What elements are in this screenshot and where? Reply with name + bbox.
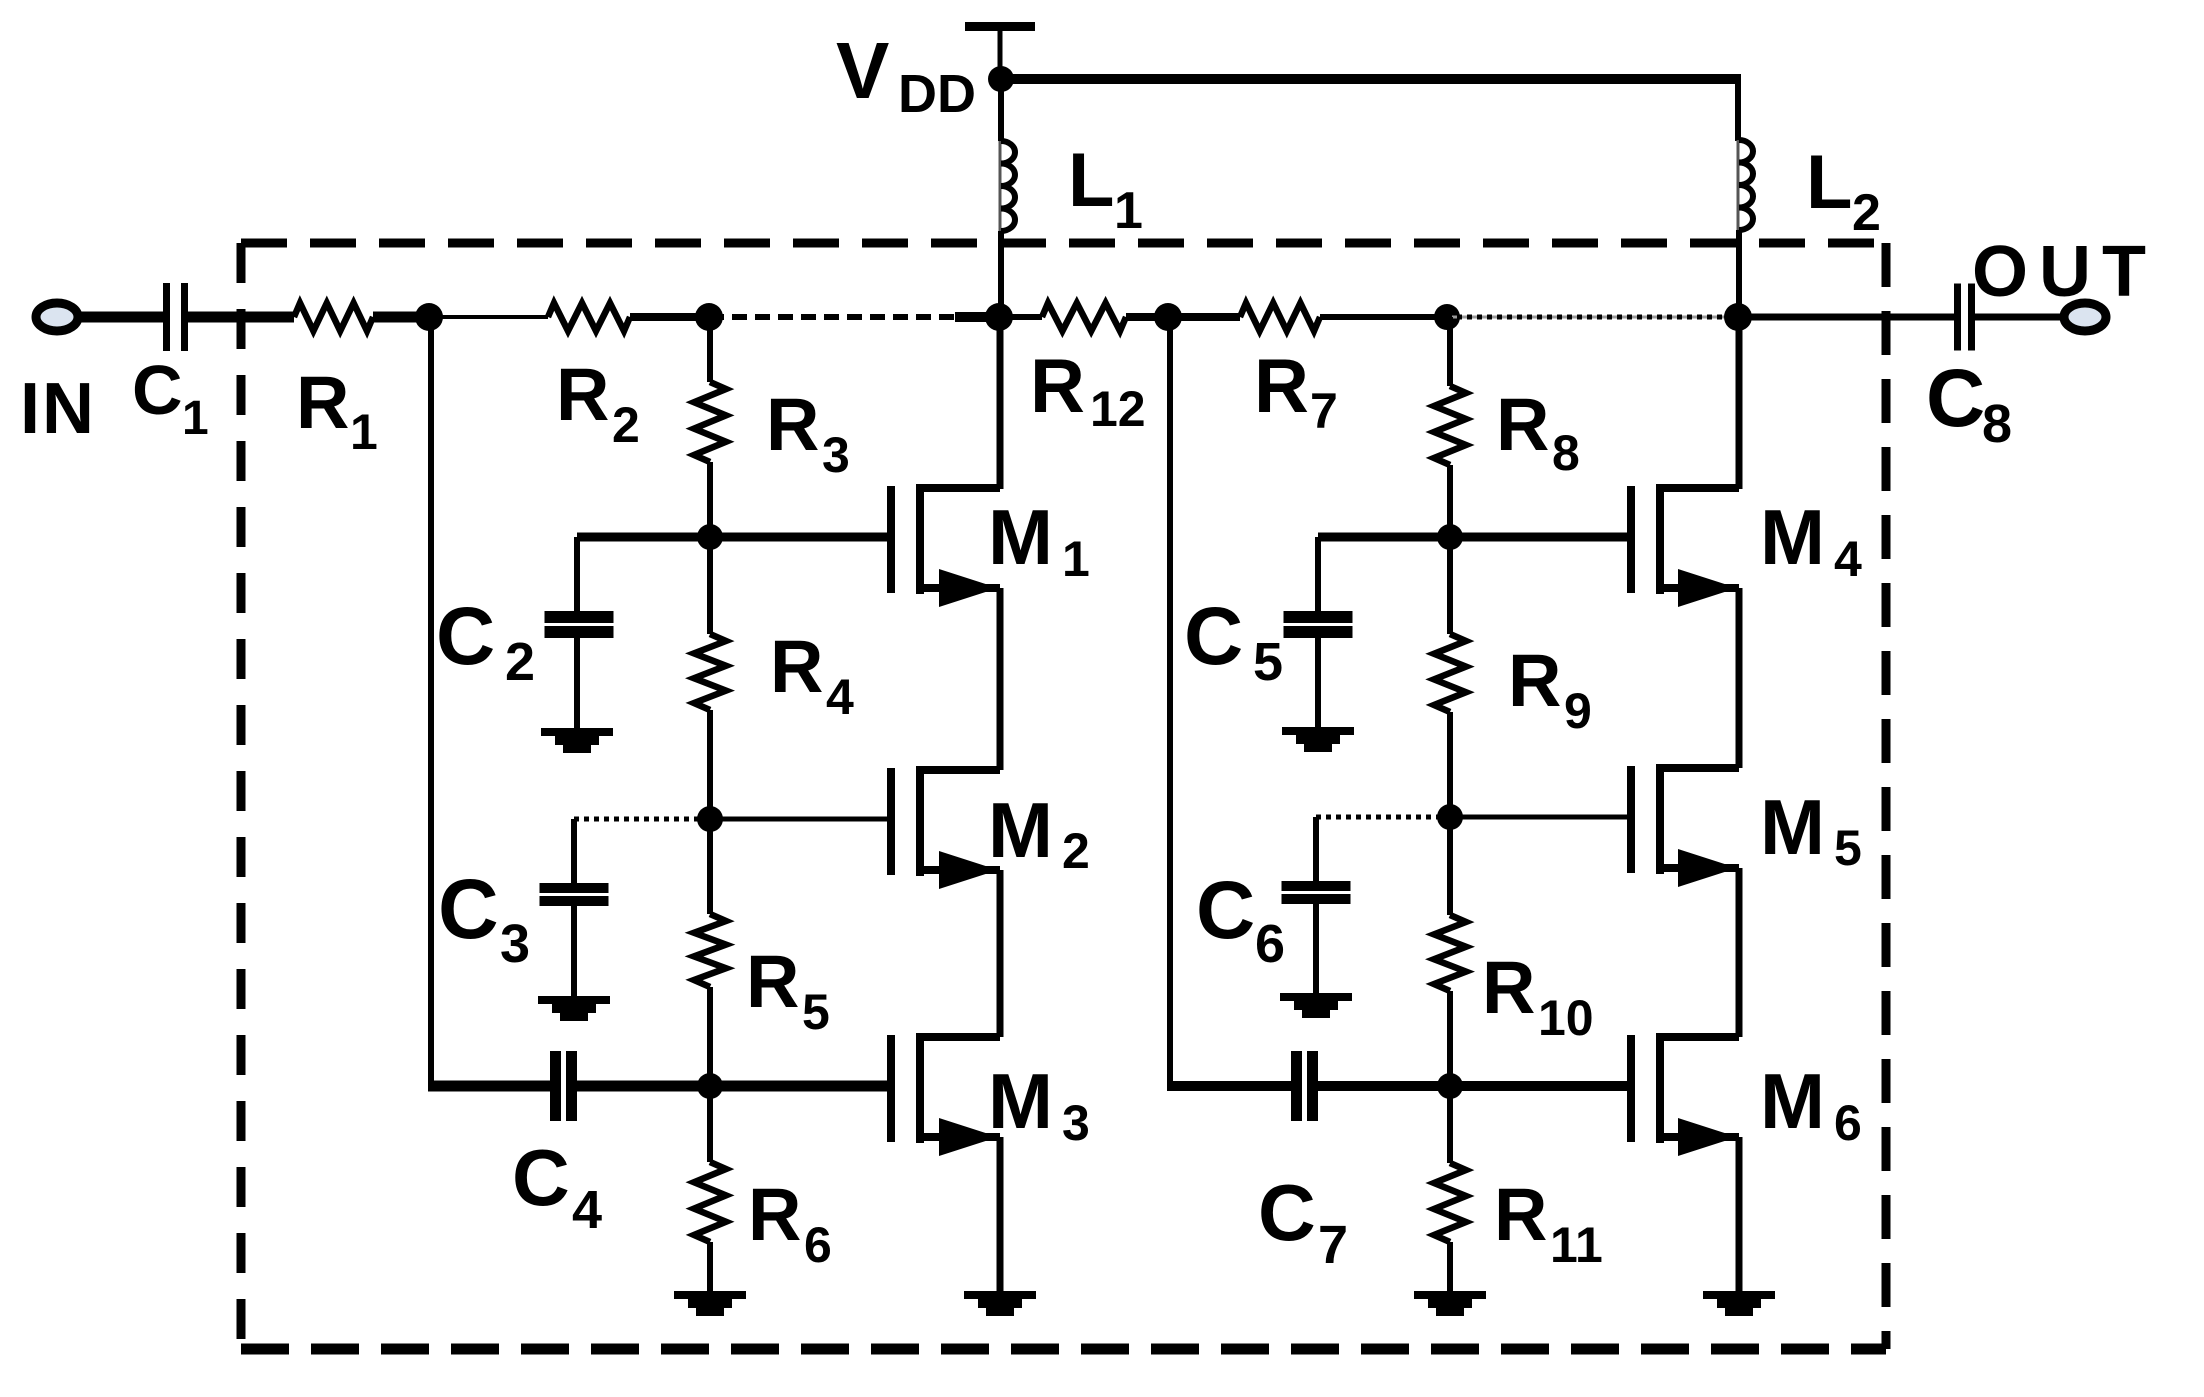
node VDD junction (988, 66, 1014, 92)
node M1 gate junction (697, 524, 723, 550)
resistor R8 (1434, 386, 1466, 465)
wire M2 gate node to R5 (707, 819, 713, 914)
node A junction (415, 303, 443, 331)
svg-text:C: C (436, 591, 495, 682)
capacitor C1 (163, 283, 170, 351)
wire IN to C1 (78, 312, 163, 323)
svg-text:C: C (1926, 353, 1985, 444)
resistor R1 (294, 303, 373, 331)
wire L1 bottom lead (998, 231, 1004, 317)
wire C7 to M6 gate node (1318, 1081, 1450, 1091)
capacitor C3 (540, 883, 609, 893)
resistor R6 (694, 1162, 726, 1242)
wire C2 bottom lead (574, 638, 580, 728)
wire C4 row corner to C4 (428, 1081, 550, 1092)
svg-text:R: R (1496, 383, 1549, 466)
wire R4 to M2 gate node (707, 710, 713, 819)
wire M3 gate node to R6 (707, 1086, 713, 1162)
svg-text:5: 5 (802, 984, 830, 1040)
svg-text:8: 8 (1982, 394, 2012, 454)
transistor M5 (1627, 766, 1635, 873)
wire R10 to M6 gate node (1447, 991, 1453, 1086)
resistor R3 (694, 382, 726, 462)
node B junction (695, 303, 723, 331)
svg-text:M: M (988, 786, 1053, 874)
capacitor C6 (1282, 881, 1351, 891)
wire C5 top lead (1315, 537, 1321, 611)
ground under R11 (1414, 1291, 1486, 1299)
node F junction (L2 / M4 drain) (1724, 303, 1752, 331)
wire node B to node C (dashed) (709, 314, 960, 320)
wire C3 bottom lead (571, 906, 577, 996)
wire R3 to M1 gate node (707, 462, 713, 537)
svg-text:C: C (512, 1133, 570, 1222)
svg-text:9: 9 (1564, 683, 1592, 739)
svg-text:R: R (1508, 639, 1561, 722)
inductor L2 (1737, 140, 1740, 230)
node E junction (1434, 304, 1460, 330)
svg-text:L: L (1806, 140, 1852, 225)
svg-text:1: 1 (350, 404, 378, 460)
svg-text:C: C (438, 862, 499, 956)
node M2 gate junction (697, 806, 723, 832)
capacitor C5 (1284, 611, 1353, 623)
wire C5/M4-gate row (1318, 533, 1631, 542)
transistor M2 (887, 768, 895, 875)
node M4 gate junction (1437, 524, 1463, 550)
svg-text:2: 2 (612, 397, 640, 453)
ground under C6 (1280, 993, 1352, 1001)
resistor R5 (694, 914, 726, 987)
svg-text:4: 4 (826, 669, 854, 725)
resistor R11 (1434, 1163, 1466, 1242)
wire C4 to M3 gate node (577, 1081, 710, 1092)
svg-text:R: R (748, 1173, 801, 1256)
node M6 gate junction (1437, 1073, 1463, 1099)
ground under C2 (541, 728, 613, 736)
wire M6 gate node to gate (1450, 1081, 1631, 1091)
svg-text:12: 12 (1090, 381, 1146, 437)
svg-text:3: 3 (1062, 1095, 1090, 1151)
wire R9 to M5 gate node (1447, 712, 1453, 817)
resistor R10 (1434, 915, 1466, 991)
wire M5 gate node to gate (1450, 815, 1631, 820)
wire node E to R8 (1447, 317, 1453, 386)
wire R8 to M4 gate node (1447, 465, 1453, 537)
svg-text:R: R (1254, 344, 1309, 429)
svg-text:M: M (1760, 493, 1825, 581)
svg-text:R: R (1482, 946, 1535, 1029)
svg-text:R: R (1494, 1173, 1547, 1256)
inductor L1 (999, 141, 1002, 231)
svg-text:1: 1 (1062, 531, 1090, 587)
svg-text:4: 4 (572, 1180, 602, 1240)
wire R5 to M3 gate node (707, 987, 713, 1086)
wire R11 to ground (1447, 1242, 1453, 1291)
wire C3 to M2 gate node (dotted) (574, 817, 700, 822)
svg-text:M: M (988, 493, 1053, 581)
svg-text:OUT: OUT (1972, 232, 2157, 312)
svg-text:R: R (556, 353, 609, 436)
dashed box left border (237, 243, 246, 1349)
terminal OUT (2064, 303, 2106, 331)
wire C1 to R1 (188, 312, 294, 323)
wire C2/M1-gate row (577, 533, 891, 542)
transistor M1 (887, 486, 895, 593)
svg-text:6: 6 (804, 1217, 832, 1273)
wire node A down to C4 row (428, 317, 434, 1086)
wire M6 gate node to R11 (1447, 1086, 1453, 1163)
wire M5 source to M6 drain (1736, 868, 1743, 1037)
power rail VDD symbol (top bar) (965, 22, 1035, 31)
resistor R12 (1042, 303, 1126, 331)
svg-text:M: M (988, 1057, 1053, 1145)
wire C7 row corner to C7 (1167, 1081, 1291, 1091)
wire L1 top lead (998, 84, 1004, 141)
wire into node C (955, 312, 999, 322)
wire C6 to M5 gate node (dotted) (1316, 815, 1440, 820)
svg-text:M: M (1760, 783, 1825, 871)
svg-text:IN: IN (20, 369, 96, 449)
svg-text:6: 6 (1255, 914, 1285, 974)
svg-text:7: 7 (1310, 383, 1338, 439)
wire node D down to C7 row (1167, 317, 1173, 1086)
svg-text:6: 6 (1834, 1095, 1862, 1151)
wire node F to C8 (1738, 314, 1954, 321)
dashed box bottom border (241, 1344, 1886, 1355)
wire M2 gate node to gate (710, 817, 891, 822)
svg-text:C: C (1184, 591, 1243, 682)
wire node D to R7 (1168, 313, 1240, 321)
svg-text:5: 5 (1253, 632, 1283, 692)
node D junction (1154, 303, 1182, 331)
wire node C to R12 (999, 314, 1042, 320)
capacitor C7 (1291, 1051, 1302, 1121)
dashed box top border (241, 239, 1886, 248)
svg-text:DD: DD (898, 64, 976, 124)
capacitor C8 (1954, 284, 1961, 351)
capacitor C2 (545, 611, 614, 623)
terminal IN (36, 303, 78, 331)
wire VDD rail to L2 (1001, 74, 1741, 84)
ground under R6 (674, 1291, 746, 1299)
wire M4 gate node to R9 (1447, 537, 1453, 634)
svg-text:C: C (132, 351, 183, 429)
svg-text:7: 7 (1318, 1215, 1348, 1275)
wire M2 source to M3 drain (997, 870, 1004, 1037)
wire C3 top lead (571, 819, 577, 883)
transistor M6 (1627, 1035, 1635, 1142)
svg-text:C: C (1258, 1168, 1316, 1257)
ground under C5 (1282, 727, 1354, 735)
ground under M3 (964, 1291, 1036, 1299)
svg-text:L: L (1068, 138, 1114, 223)
svg-text:R: R (766, 383, 819, 466)
wire M3 source to ground (997, 1137, 1004, 1291)
svg-text:3: 3 (500, 914, 530, 974)
wire R7 to node E (1320, 314, 1447, 320)
wire M5 gate node to R10 (1447, 817, 1453, 915)
wire L2 top lead (1735, 79, 1741, 141)
wire R12 to node D (1126, 313, 1168, 321)
wire M3 gate node to gate (710, 1081, 891, 1092)
svg-text:5: 5 (1834, 820, 1862, 876)
wire L2 bottom lead (1736, 230, 1742, 317)
wire C6 top lead (1313, 817, 1319, 881)
svg-text:2: 2 (1852, 184, 1881, 242)
wire node E to node F (dotted) (1447, 316, 1738, 319)
svg-text:R: R (1030, 344, 1085, 429)
svg-text:R: R (770, 625, 823, 708)
svg-text:V: V (836, 26, 889, 115)
wire C6 bottom lead (1313, 904, 1319, 993)
wire M6 source to ground (1736, 1137, 1743, 1291)
resistor R9 (1434, 634, 1466, 712)
wire R6 to ground (707, 1242, 713, 1291)
wire R1 to node A (373, 312, 429, 323)
wire C8 to OUT (1975, 314, 2062, 321)
wire R2 to node B (630, 313, 709, 321)
transistor M3 (887, 1035, 895, 1142)
ground under M6 (1703, 1291, 1775, 1299)
svg-text:2: 2 (505, 632, 535, 692)
ground under C3 (538, 996, 610, 1004)
svg-text:1: 1 (182, 392, 209, 445)
wire node B to R3 (707, 317, 713, 382)
resistor R4 (694, 634, 726, 710)
resistor R7 (1240, 303, 1320, 331)
transistor M4 (1627, 486, 1635, 593)
svg-text:R: R (296, 361, 349, 444)
node C junction (L1 / M1 drain) (985, 303, 1013, 331)
svg-text:2: 2 (1062, 823, 1090, 879)
svg-text:11: 11 (1550, 1217, 1603, 1273)
wire M4 source to M5 drain (1736, 588, 1743, 768)
dashed box right border (1882, 243, 1891, 1349)
svg-text:4: 4 (1834, 531, 1862, 587)
svg-text:8: 8 (1552, 425, 1580, 481)
svg-text:3: 3 (822, 427, 850, 483)
node M3 gate junction (697, 1073, 723, 1099)
wire M1 drain to node C (997, 317, 1004, 489)
capacitor C4 (550, 1051, 561, 1121)
svg-text:1: 1 (1114, 182, 1143, 240)
wire VDD stem (998, 31, 1003, 79)
wire node A to R2 (429, 315, 548, 319)
wire C5 bottom lead (1315, 638, 1321, 727)
svg-text:R: R (746, 940, 799, 1023)
wire C2 top lead (574, 537, 580, 611)
wire M1 source to M2 drain (997, 588, 1004, 770)
wire M4 drain to node F (1736, 317, 1743, 489)
wire M1 gate node to R4 (707, 537, 713, 634)
svg-text:M: M (1760, 1057, 1825, 1145)
svg-text:C: C (1196, 865, 1255, 956)
resistor R2 (548, 303, 630, 331)
node M5 gate junction (1437, 804, 1463, 830)
svg-text:10: 10 (1538, 990, 1594, 1046)
